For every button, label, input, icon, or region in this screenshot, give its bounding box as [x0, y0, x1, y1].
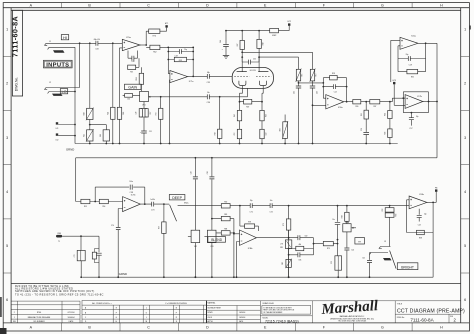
svg-text:APPVD: APPVD [208, 320, 214, 323]
svg-text:C71: C71 [250, 211, 253, 213]
svg-text:R70: R70 [153, 35, 156, 37]
svg-text:07/11/04: 07/11/04 [68, 312, 75, 314]
svg-text:C43: C43 [207, 171, 209, 174]
svg-text:R54: R54 [102, 206, 105, 208]
svg-text:IC6a: IC6a [411, 35, 416, 37]
svg-text:R35: R35 [411, 76, 414, 78]
svg-text:72115.72410 (BASS): 72115.72410 (BASS) [265, 319, 299, 323]
svg-text:IC7b: IC7b [417, 96, 422, 98]
svg-text:C52: C52 [234, 132, 236, 135]
svg-text:TO BE READ IN CONJUNCTION WITH: TO BE READ IN CONJUNCTION WITH [263, 306, 292, 309]
svg-text:IC6b: IC6b [419, 194, 424, 196]
svg-text:LINK2: LINK2 [272, 35, 277, 37]
svg-text:5: 5 [464, 244, 466, 248]
svg-text:H7: H7 [358, 241, 362, 243]
svg-text:TITLE: TITLE [397, 304, 403, 306]
svg-text:DATE: DATE [69, 320, 74, 323]
svg-text:C42: C42 [191, 171, 193, 174]
svg-text:C: C [147, 325, 150, 329]
svg-text:1: 1 [14, 317, 15, 319]
svg-text:R37: R37 [373, 106, 376, 108]
svg-text:C20: C20 [361, 128, 363, 131]
svg-text:LT8: LT8 [280, 243, 283, 245]
svg-text:GRND: GRND [66, 147, 74, 151]
svg-text:R68: R68 [214, 132, 216, 135]
svg-text:R766: R766 [37, 312, 41, 314]
svg-text:DEEP: DEEP [172, 196, 182, 200]
svg-text:P: P [176, 312, 178, 314]
svg-text:2: 2 [454, 318, 457, 323]
svg-text:C25: C25 [362, 258, 365, 260]
svg-text:E: E [264, 325, 267, 329]
svg-text:C74: C74 [111, 225, 114, 227]
svg-text:MANUFACTURE RELEASE: MANUFACTURE RELEASE [28, 316, 51, 319]
svg-text:C: C [147, 4, 150, 8]
svg-text:6: 6 [464, 298, 466, 302]
svg-text:R78: R78 [248, 222, 251, 224]
svg-text:C33: C33 [95, 48, 98, 50]
svg-text:C45: C45 [293, 91, 295, 94]
svg-text:C17: C17 [409, 128, 412, 130]
svg-text:R69: R69 [159, 226, 161, 229]
svg-text:10n: 10n [332, 219, 335, 221]
svg-text:G: G [116, 317, 118, 319]
svg-text:R38: R38 [419, 238, 422, 240]
svg-text:2: 2 [464, 82, 466, 86]
svg-text:R: R [176, 317, 178, 319]
svg-text:C19: C19 [409, 65, 412, 67]
svg-text:GAIN: GAIN [128, 86, 137, 90]
svg-text:R34: R34 [385, 113, 387, 116]
svg-text:3: 3 [464, 136, 466, 140]
svg-text:R90: R90 [224, 201, 227, 203]
svg-text:MATERIAL: MATERIAL [208, 301, 216, 304]
svg-text:VR2: VR2 [194, 246, 197, 248]
svg-text:FB: FB [435, 187, 438, 189]
svg-text:DATE: DATE [239, 320, 243, 323]
svg-text:R76: R76 [283, 223, 285, 226]
svg-text:CCT DIAGRAM (PRE-AMP): CCT DIAGRAM (PRE-AMP) [397, 308, 465, 314]
svg-text:C73: C73 [151, 210, 154, 212]
svg-text:J: J [146, 308, 147, 310]
svg-text:GRND: GRND [119, 272, 127, 276]
svg-text:R33: R33 [385, 132, 387, 135]
svg-text:48k: 48k [299, 244, 302, 246]
svg-text:R84: R84 [342, 215, 344, 218]
svg-text:R52: R52 [153, 51, 156, 53]
svg-text:B: B [88, 4, 91, 8]
svg-text:G: G [381, 4, 384, 8]
svg-text:Marshall: Marshall [320, 298, 379, 318]
svg-text:DRWN: DRWN [208, 312, 214, 314]
svg-text:10n: 10n [207, 92, 210, 94]
svg-text:X = DIMENSION PLATING: X = DIMENSION PLATING [165, 302, 187, 305]
svg-text:D: D [206, 4, 209, 8]
svg-text:SWITCHES ARE SHOWN IN THE OFF: SWITCHES ARE SHOWN IN THE OFF POSITION (… [15, 289, 95, 293]
svg-text:C50: C50 [127, 99, 130, 101]
svg-text:1: 1 [6, 28, 8, 32]
svg-text:CHKD: CHKD [208, 317, 213, 319]
svg-text:C53: C53 [265, 132, 267, 135]
svg-text:C75: C75 [74, 254, 76, 257]
svg-text:C51: C51 [149, 131, 152, 133]
svg-text:LO: LO [61, 90, 66, 94]
svg-text:7111-60-8A: 7111-60-8A [410, 317, 434, 322]
svg-text:H: H [440, 4, 443, 8]
svg-text:SURFACE FINISH: SURFACE FINISH [208, 306, 222, 309]
svg-text:HT1: HT1 [165, 23, 168, 25]
svg-text:R71: R71 [130, 72, 133, 74]
svg-text:C14: C14 [334, 91, 337, 93]
svg-text:R55: R55 [84, 206, 87, 208]
svg-text:RT2: RT2 [316, 74, 318, 77]
svg-text:20p: 20p [424, 214, 427, 216]
svg-text:68p: 68p [207, 72, 210, 74]
svg-text:IC7a: IC7a [189, 81, 194, 83]
svg-text:C44: C44 [220, 40, 222, 43]
svg-text:R101: R101 [136, 77, 138, 81]
svg-text:20p: 20p [184, 49, 187, 51]
svg-text:C82: C82 [305, 235, 308, 237]
svg-text:R48: R48 [263, 42, 265, 45]
svg-text:C38: C38 [130, 192, 133, 194]
svg-text:INPUTS: INPUTS [46, 63, 69, 69]
svg-text:F: F [323, 325, 326, 329]
svg-text:BLEND: BLEND [211, 238, 223, 242]
svg-text:2: 2 [6, 82, 8, 86]
svg-text:HT3: HT3 [392, 80, 395, 82]
svg-text:39p: 39p [250, 200, 253, 202]
svg-text:C35: C35 [207, 82, 210, 84]
svg-text:TO 41 (CS) - TO RESISTOR 1 GRI: TO 41 (CS) - TO RESISTOR 1 GRID REF C5 D… [15, 293, 104, 297]
svg-text:C34: C34 [253, 58, 256, 60]
svg-text:R66: R66 [100, 134, 102, 137]
svg-text:R51: R51 [83, 134, 85, 137]
svg-text:IC7b: IC7b [131, 195, 136, 197]
svg-text:R47: R47 [237, 43, 239, 46]
svg-text:A: A [85, 307, 87, 310]
svg-text:10p: 10p [416, 116, 419, 118]
svg-text:3: 3 [6, 136, 8, 140]
svg-text:L: L [146, 317, 147, 319]
svg-text:100n: 100n [129, 181, 133, 183]
svg-text:R89: R89 [224, 214, 227, 216]
svg-text:RT1: RT1 [302, 74, 304, 77]
svg-text:16/06/04: 16/06/04 [239, 317, 245, 319]
svg-text:C49: C49 [136, 111, 138, 114]
svg-text:4: 4 [6, 190, 8, 194]
svg-text:SW2a: SW2a [184, 202, 188, 204]
svg-text:A: A [30, 4, 33, 8]
svg-text:C23: C23 [418, 224, 421, 226]
svg-text:LK2: LK2 [56, 139, 59, 141]
svg-text:R92: R92 [382, 208, 384, 211]
svg-text:4: 4 [464, 190, 466, 194]
svg-text:R88: R88 [224, 228, 227, 230]
svg-text:C26: C26 [331, 261, 333, 264]
svg-text:DWG.No.: DWG.No. [15, 77, 19, 92]
svg-text:E: E [264, 4, 267, 8]
svg-text:VR6b: VR6b [345, 222, 349, 224]
svg-text:C81: C81 [298, 259, 301, 261]
svg-text:BRIGHT: BRIGHT [401, 265, 414, 269]
svg-text:HI: HI [63, 36, 67, 40]
svg-text:F: F [116, 312, 118, 314]
svg-text:ECC83: ECC83 [250, 70, 256, 72]
svg-text:16/06/04: 16/06/04 [68, 317, 75, 319]
svg-text:VR5: VR5 [280, 247, 283, 249]
svg-text:ALL OTHER HOLES = +: ALL OTHER HOLES = + [92, 302, 112, 305]
svg-text:IC5a: IC5a [126, 37, 131, 39]
svg-text:DRG.No: DRG.No [397, 317, 405, 319]
svg-text:R30: R30 [355, 106, 358, 108]
svg-text:1: 1 [464, 28, 466, 32]
svg-text:C: C [85, 317, 87, 319]
svg-text:R31: R31 [361, 113, 363, 116]
svg-text:D: D [206, 325, 209, 329]
svg-text:CMB: CMB [57, 233, 62, 235]
svg-text:5: 5 [6, 244, 8, 248]
svg-text:B: B [85, 312, 87, 314]
svg-text:A: A [30, 325, 33, 329]
svg-text:+: + [222, 49, 224, 51]
svg-text:R67: R67 [155, 112, 157, 115]
svg-text:R46: R46 [265, 114, 267, 117]
svg-text:R28: R28 [332, 73, 335, 75]
svg-text:K: K [146, 312, 148, 314]
svg-text:16/06/04: 16/06/04 [239, 312, 245, 314]
svg-text:7111-60-8A: 7111-60-8A [10, 16, 19, 57]
svg-text:B: B [88, 325, 91, 329]
svg-text:R45: R45 [234, 114, 236, 117]
svg-text:R93: R93 [395, 214, 397, 217]
svg-text:1u/63v: 1u/63v [150, 199, 155, 201]
svg-text:VR4: VR4 [280, 128, 282, 131]
svg-text:C46: C46 [316, 91, 318, 94]
svg-text:C24: C24 [351, 249, 354, 251]
svg-text:R82: R82 [282, 262, 284, 265]
svg-text:10n: 10n [270, 200, 273, 202]
svg-text:S/D NUMBER: S/D NUMBER [33, 321, 45, 323]
svg-text:J1: J1 [49, 41, 51, 43]
svg-text:6: 6 [6, 298, 8, 302]
svg-text:J2: J2 [49, 82, 51, 84]
svg-text:LK1: LK1 [56, 128, 59, 130]
svg-text:20p: 20p [406, 54, 409, 56]
svg-text:R65: R65 [123, 112, 125, 115]
svg-text:68p+5%: 68p+5% [94, 39, 101, 41]
svg-text:C36: C36 [207, 102, 210, 104]
svg-text:J3: J3 [384, 241, 386, 243]
svg-text:IC8a: IC8a [338, 107, 343, 109]
svg-text:R50: R50 [83, 112, 85, 115]
svg-text:R59: R59 [246, 106, 249, 108]
svg-text:R57: R57 [150, 111, 152, 114]
svg-text:IC8b: IC8b [248, 248, 253, 250]
svg-text:DRAWN ON A3: DRAWN ON A3 [263, 302, 274, 305]
svg-text:R56: R56 [108, 112, 110, 115]
svg-text:R53: R53 [179, 60, 182, 62]
svg-text:2: 2 [14, 312, 15, 314]
svg-text:R79: R79 [327, 248, 330, 250]
svg-text:C72: C72 [269, 211, 272, 213]
svg-text:H: H [440, 325, 443, 329]
svg-text:F: F [323, 4, 326, 8]
svg-text:G: G [381, 325, 384, 329]
svg-text:HT2: HT2 [287, 21, 290, 23]
svg-text:C48: C48 [131, 61, 134, 63]
svg-text:T1: T1 [58, 241, 60, 243]
